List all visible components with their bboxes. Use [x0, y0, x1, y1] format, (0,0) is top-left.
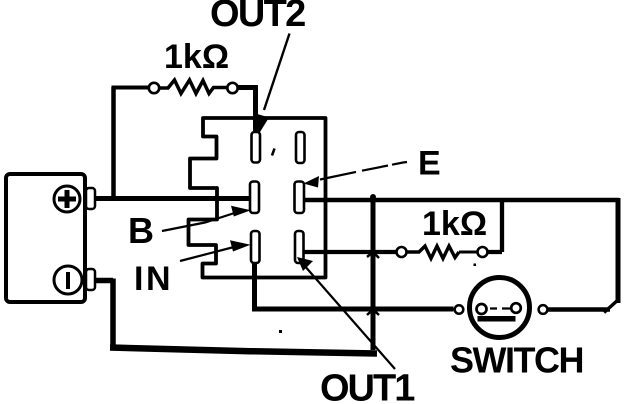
switch left contact: [477, 304, 487, 314]
battery - terminal circle: [54, 266, 82, 294]
switch left terminal: [455, 305, 464, 314]
speck below block: [279, 330, 282, 333]
wire battery- to bottom: [95, 279, 113, 350]
pointer line IN: [180, 247, 234, 261]
connector block outline: [189, 118, 326, 278]
junction tick at R2 wire: [367, 252, 379, 258]
svg-text:OUT2: OUT2: [210, 0, 305, 35]
svg-text:OUT1: OUT1: [320, 368, 415, 404]
pointer line B: [162, 213, 236, 232]
arrowhead OUT1: [297, 257, 313, 271]
wire switch right to corner: [548, 307, 611, 312]
wire corner hook at switch: [604, 300, 619, 313]
svg-text:SWITCH: SWITCH: [450, 340, 583, 381]
wire R1 to OUT2 slot: [237, 85, 256, 131]
slot top-right: [296, 132, 305, 163]
svg-text:E: E: [418, 145, 441, 183]
pointer line OUT1: [303, 264, 395, 369]
slot IN (bottom-left): [251, 231, 260, 263]
svg-text:1kΩ: 1kΩ: [164, 38, 229, 76]
node junction on E wire: [370, 194, 376, 200]
resistor R2 1kOhm zigzag: [406, 246, 460, 259]
resistor R1 1kOhm zigzag: [160, 80, 228, 94]
wire IN slot down and right to switch: [255, 263, 454, 309]
slot B (mid-left): [250, 182, 259, 214]
svg-text:1kΩ: 1kΩ: [422, 205, 487, 243]
lead R2 right: [459, 251, 478, 254]
resistor R2 right terminal: [478, 247, 488, 257]
switch right terminal: [539, 305, 548, 314]
battery - tab: [86, 269, 95, 290]
slot OUT2 (top-left): [252, 132, 261, 163]
arrowhead IN: [230, 240, 251, 251]
resistor R2 left terminal: [397, 247, 407, 257]
wire right edge down to switch: [616, 198, 621, 303]
battery + terminal circle: [54, 186, 80, 212]
arrowhead E: [304, 176, 320, 188]
switch right contact: [511, 303, 521, 313]
resistor R1 left terminal: [149, 83, 159, 93]
wire battery+ to B slot: [95, 196, 250, 201]
switch contact dashes: [490, 307, 510, 309]
switch S1 body: [470, 278, 530, 338]
pointer line E: [320, 162, 407, 180]
slot OUT1 (bottom-right): [295, 231, 304, 263]
wire R2 up to E wire: [487, 200, 502, 252]
svg-text:B: B: [128, 210, 154, 251]
slot E (mid-right): [295, 182, 305, 214]
battery BT1 body: [6, 174, 85, 302]
switch bar: [478, 316, 516, 322]
wire center vertical from E wire to bottom wire: [371, 199, 376, 350]
arrowhead B: [231, 206, 251, 217]
wire E slot to right edge: [304, 198, 619, 203]
wire top horizontal left lead: [112, 86, 150, 90]
battery + tab: [86, 188, 95, 209]
svg-text:IN: IN: [134, 260, 173, 298]
arrowhead OUT2: [254, 113, 269, 135]
resistor R1 right terminal: [227, 83, 237, 93]
speck near block: [272, 149, 275, 156]
speck below R2: [474, 264, 477, 267]
junction tick at switch wire: [367, 310, 379, 316]
wire OUT1 slot to R2: [304, 250, 397, 254]
pointer line OUT2: [264, 34, 290, 111]
bottom wire: [110, 348, 377, 354]
wire left vertical to resistor R1: [111, 87, 116, 199]
